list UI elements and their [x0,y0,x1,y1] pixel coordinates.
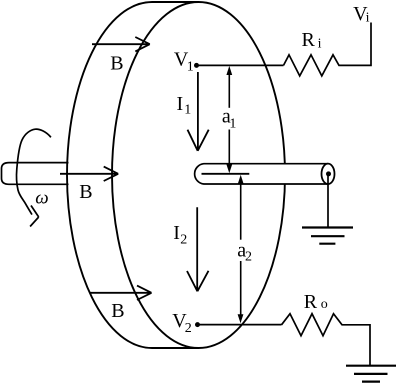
svg-text:B: B [110,52,123,74]
svg-text:R: R [304,291,318,313]
svg-text:2: 2 [245,250,252,265]
svg-text:o: o [321,297,328,312]
svg-text:B: B [111,300,124,322]
svg-text:i: i [318,37,322,52]
svg-text:i: i [366,11,370,26]
svg-text:I: I [177,93,184,115]
svg-text:1: 1 [184,103,191,118]
svg-text:1: 1 [229,117,236,132]
svg-text:2: 2 [185,321,192,336]
svg-text:ω: ω [35,188,48,209]
svg-text:1: 1 [187,60,194,75]
svg-text:R: R [302,29,316,51]
svg-text:I: I [173,222,180,244]
svg-text:B: B [79,181,92,203]
svg-text:2: 2 [180,233,187,248]
